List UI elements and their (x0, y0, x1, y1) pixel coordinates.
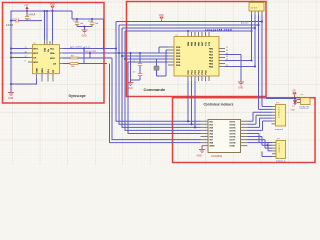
svg-text:8: 8 (25, 60, 26, 62)
capacitor C5 (73, 19, 84, 27)
bus wire vertical net3 to ULN in3 (122, 28, 201, 127)
IC U2 bottom pin stubs (188, 76, 209, 81)
svg-text:moteur1: moteur1 (275, 128, 284, 131)
wire R1 pullup (89, 53, 91, 58)
svg-text:CS: CS (33, 57, 37, 59)
wire U2 bottom pwm1 to ULN in1 (187, 81, 189, 121)
wire U1 gnd (11, 79, 37, 93)
wire ULN out4 to conn J2 pin6 (248, 121, 272, 130)
junction rail pin A (43, 10, 45, 12)
svg-text:+5V: +5V (292, 91, 297, 93)
svg-text:OUT4: OUT4 (230, 130, 237, 132)
junction net1 pin4 (261, 20, 263, 22)
svg-text:SDO: SDO (50, 58, 55, 60)
svg-text:GND: GND (8, 98, 13, 100)
connector P1 top (249, 3, 264, 12)
capacitor C1 (vertical) (25, 11, 36, 21)
wire R2 net down to ULN in8 (110, 64, 201, 143)
IC U1 left pin stubs (28, 49, 32, 63)
wire P1 pin2 down to U2 (254, 15, 256, 67)
svg-text:ULN2803: ULN2803 (211, 154, 223, 158)
wire U2 right gnd (225, 55, 241, 82)
svg-text:OUT6: OUT6 (230, 137, 237, 139)
svg-text:1 2 3 4: 1 2 3 4 (251, 8, 258, 10)
IC U2 internal labels (176, 41, 214, 75)
IC U3 left pin stubs (201, 121, 209, 145)
wire U2 right to P1 pin2 net (225, 66, 255, 68)
IC U1 gyroscope body (32, 45, 59, 74)
connector J4 pin stubs (297, 100, 301, 103)
svg-text:Commande: Commande (144, 87, 167, 92)
svg-text:GND: GND (82, 36, 87, 38)
wire top net1 (116, 21, 262, 23)
ground filter GND (82, 30, 88, 38)
connector J2 pin stubs (272, 107, 276, 124)
IC U1 gyroscope top pin stubs (45, 40, 53, 45)
capacitor C6 (88, 19, 99, 27)
wire ULN out8 to conn J3 pin4 (248, 143, 273, 151)
junction gnd rail (10, 83, 12, 85)
svg-text:GND: GND (128, 88, 133, 90)
svg-text:RST: RST (202, 41, 204, 46)
power +5V diode net (292, 91, 297, 99)
junction bus gyro SDA (118, 52, 120, 54)
IC U2 right pin stubs (219, 49, 225, 67)
bus wire vertical net2 to ULN in2 (119, 25, 201, 124)
wire rail to U1 left pin 1 (11, 48, 28, 50)
wire rail to U1 left pin 3 (11, 57, 28, 59)
svg-text:37: 37 (226, 47, 228, 49)
junction SCL pullup feed (102, 47, 104, 49)
svg-text:INT1: INT1 (33, 48, 39, 50)
wire U2 bottom pwm3 to ULN in3 (194, 81, 196, 127)
crystal Y1 (154, 50, 168, 76)
pin numbers U1 left (25, 47, 27, 63)
svg-text:OUT7: OUT7 (230, 140, 237, 142)
sheet box Commande (127, 2, 267, 97)
wire U2 right to P1 pin1 net (225, 60, 252, 62)
svg-text:fpl_uart: fpl_uart (241, 22, 249, 25)
wire diode net top right (266, 99, 295, 101)
svg-text:1 2 3 4 5 6 7: 1 2 3 4 5 6 7 (277, 107, 279, 119)
power +5V PWR01 (24, 4, 29, 11)
bus wire vertical net5 to ULN in5 (128, 62, 201, 134)
wire filter caps bottom (77, 27, 92, 30)
wire SDA net gyro to U2 (63, 52, 168, 54)
capacitor C2 (horizontal) (6, 18, 42, 27)
IC U3 ULN2803 body (208, 120, 241, 153)
junction rail U1 pin1 (10, 47, 12, 49)
connector P1 pin stubs (252, 11, 263, 15)
svg-text:INT2: INT2 (33, 53, 39, 55)
ground ULN GND (197, 146, 206, 158)
wire rail to U2 row47 (131, 47, 169, 53)
wire U2 bottom pwm2 to ULN in2 (191, 81, 193, 124)
sheet box Controleur moteurs (173, 98, 316, 163)
wire U2 pin row y59 from bus (125, 58, 168, 60)
svg-text:GND: GND (291, 110, 296, 112)
ground commande right GND (238, 82, 244, 89)
svg-text:GND: GND (210, 146, 215, 148)
diode D1 (291, 101, 297, 112)
svg-text:SDA: SDA (50, 52, 55, 55)
IC U3 right pin stubs (241, 121, 248, 145)
svg-text:OUT2: OUT2 (230, 124, 237, 126)
IC U1 bottom pin stubs (37, 74, 54, 82)
wire P1 pin3 down to J2 pin2 (259, 15, 272, 110)
svg-text:1 2 3 4 5 6: 1 2 3 4 5 6 (278, 143, 280, 153)
svg-text:VDD: VDD (50, 4, 55, 6)
sheet box Gyroscope (3, 3, 105, 104)
svg-text:gyro_int/SCL_out_xx: gyro_int/SCL_out_xx (70, 45, 91, 48)
wire +5V rail gyro (11, 11, 104, 92)
junction net3 pin2 (254, 27, 256, 29)
wire top net4 (125, 30, 252, 32)
ground commande GND (128, 83, 134, 90)
junction J3 pin2 bend (266, 144, 268, 146)
wire ULN out7 to conn J3 pin3 (248, 140, 273, 149)
capacitor C3 (133, 53, 143, 73)
svg-text:Diode_IN: Diode_IN (300, 107, 310, 109)
wire ULN out1 to conn J2 pin3 (248, 112, 272, 121)
wire ULN out5 to conn J3 pin1 (248, 134, 273, 143)
junction filter cap A top (76, 18, 78, 20)
junction C2-rail (10, 20, 12, 22)
svg-text:COM: COM (230, 146, 235, 148)
junction rail U1 pin2 (10, 52, 12, 54)
junction bus gyro SCL (115, 47, 117, 49)
junction filter bottom (83, 25, 85, 27)
IC U2 microcontroller body (174, 37, 219, 76)
wire rail to U1 left pin 2 (11, 52, 28, 54)
connector J4 diode body (301, 98, 311, 105)
wire U2 top pin from net4 (187, 31, 189, 32)
svg-text:OUT5: OUT5 (230, 134, 237, 136)
junction filter cap B top (91, 18, 93, 20)
junction rail U1 pin3 (10, 56, 12, 58)
wire P1 pin1 down to U2 (251, 15, 253, 61)
pin numbers U2 right (226, 47, 228, 67)
IC U1 internal pin labels (33, 47, 56, 72)
bus wire vertical net4 to ULN in4 (125, 31, 201, 130)
commande decoupling rail (130, 53, 132, 82)
wire SCL net gyro to bus (63, 48, 116, 50)
junction rail VDD (51, 10, 53, 12)
svg-text:moteur_2: moteur_2 (276, 160, 286, 163)
connector J3 moteur2 body (276, 141, 286, 159)
wire top net2 (119, 24, 259, 26)
junction net2 pin3 (257, 24, 259, 26)
IC U2 left pin stubs (168, 47, 174, 65)
svg-text:atmega168-20AU: atmega168-20AU (205, 28, 232, 32)
svg-text:VDD: VDD (159, 15, 164, 17)
IC U3 internal labels (210, 121, 237, 147)
connector J2 moteur1 body (276, 105, 286, 127)
wire U2 pin row y56 from bus (122, 55, 168, 57)
svg-text:10k: 10k (71, 66, 74, 68)
wire top net3 (122, 27, 255, 29)
svg-text:GND: GND (197, 155, 202, 157)
capacitor C4 (131, 72, 143, 81)
wire conn J3 pin6 elbow (262, 152, 272, 157)
junction rail-cap (26, 10, 28, 12)
svg-text:OUT1: OUT1 (230, 121, 237, 123)
wire rail to IC pins top (45, 11, 53, 41)
svg-text:RES: RES (42, 68, 44, 73)
svg-text:Controleur moteurs: Controleur moteurs (204, 102, 234, 106)
wire U2 pin row y62 to bus net5 (128, 61, 168, 63)
connector J3 pin stubs (272, 143, 276, 157)
wire ULN out2 to conn J2 pin4 (248, 115, 272, 124)
svg-text:0.47uF: 0.47uF (6, 25, 14, 27)
svg-text:GND: GND (36, 68, 38, 73)
power VDD PWR02 (50, 4, 55, 11)
svg-text:34: 34 (226, 56, 228, 58)
IC U2 microcontroller top pin stubs (188, 32, 209, 37)
svg-text:OUT8: OUT8 (230, 143, 237, 145)
svg-text:36: 36 (226, 50, 228, 52)
resistor R1 (63, 55, 112, 59)
svg-text:0.47uF: 0.47uF (28, 15, 36, 17)
wire R2 pullup (83, 49, 85, 64)
resistor R2 (63, 63, 107, 68)
IC U1 right pin stubs (60, 49, 64, 64)
svg-text:GND: GND (238, 87, 243, 89)
power VDD commande (159, 15, 164, 22)
svg-text:Gyroscope: Gyroscope (69, 94, 86, 98)
wire P1 pin4 down to J2 pin1 (262, 15, 272, 107)
ground gyro GND (8, 93, 14, 100)
svg-text:CP: CP (53, 69, 55, 73)
svg-text:CS: CS (53, 63, 57, 65)
bus wire vertical net1 to ULN in1 (116, 22, 201, 122)
wire ULN out3 to conn J2 pin5 (248, 118, 272, 127)
wire ULN out6 to conn J3 pin2 (248, 137, 273, 146)
svg-text:SDO: SDO (33, 62, 38, 64)
svg-text:+5V: +5V (24, 4, 29, 7)
wire R1 net down to ULN in7 (112, 58, 201, 140)
junction rail pin B (46, 10, 48, 12)
svg-text:OUT3: OUT3 (230, 127, 237, 129)
